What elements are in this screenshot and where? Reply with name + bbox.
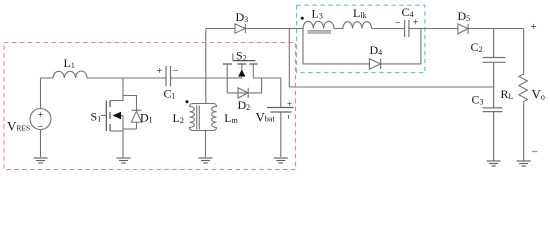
wire V_RES bottom to ground — [40, 130, 42, 158]
diode D3 — [235, 24, 245, 33]
resistor RL — [519, 29, 527, 161]
wire main rail left — [41, 78, 54, 109]
diode D2 (antiparallel of S2) — [227, 88, 261, 98]
diode D5 — [458, 24, 468, 34]
inductor L1 — [53, 71, 87, 78]
ground (S1) — [117, 158, 131, 163]
wire C1 to S2 left node — [171, 77, 229, 79]
red dashed box (input stage) — [4, 43, 296, 170]
svg-text:+: + — [531, 21, 537, 33]
wire D5 to output corner — [468, 28, 524, 30]
S1 body arrow — [113, 112, 122, 120]
capacitor C2 — [483, 29, 506, 108]
ground (RL) — [517, 161, 531, 166]
wire node B vertical (D3 rail down to L2 top) — [205, 29, 207, 104]
svg-text:+: + — [413, 18, 419, 29]
ground (battery) — [274, 158, 288, 163]
wire D3 cathode to L3 — [245, 28, 303, 30]
wire S2 right rail to battery corner — [253, 78, 280, 108]
battery V_bat — [267, 108, 294, 119]
inductor Llk (leakage) — [343, 22, 372, 29]
capacitor C4 — [405, 20, 409, 37]
ground (V_RES) — [34, 158, 48, 163]
svg-text:+: + — [287, 99, 292, 109]
S2 body arrow — [238, 70, 245, 77]
svg-text:+: + — [157, 66, 163, 77]
capacitor C1 — [166, 66, 171, 87]
core lines under L3 — [308, 30, 332, 32]
voltage source V_RES — [30, 109, 51, 130]
wire mid return line to C2/C3 junction — [289, 86, 493, 88]
svg-text:–: – — [531, 146, 538, 157]
wire D3-rail tap down to mid return line — [288, 29, 290, 88]
diode D4 — [369, 59, 380, 69]
cyan loop left vertical + bottom wire — [303, 29, 369, 64]
node dot (L2 winding polarity) — [186, 100, 189, 103]
cyan dashed box (secondary cell) — [297, 5, 425, 73]
svg-text:−: − — [173, 66, 179, 77]
wire battery to ground — [280, 112, 282, 157]
wire L3 to Llk — [334, 28, 343, 30]
node dot (L3 winding polarity) — [301, 17, 304, 20]
diode D1 (antiparallel of S1) — [123, 96, 142, 130]
inductor L3 (secondary winding) — [303, 21, 334, 33]
ground (C2/C3) — [487, 161, 501, 166]
svg-text:+: + — [38, 110, 44, 121]
switch S2 (MOSFET, horizontal) — [223, 61, 257, 64]
ground (L2/Lm) — [199, 158, 213, 163]
wire L1 to C1 — [87, 77, 166, 79]
wire top rail to D3 — [206, 28, 235, 30]
svg-text:−: − — [38, 122, 44, 133]
wire C4 to D5 / loop right vertical — [303, 29, 458, 64]
transformer L2 / Lm — [190, 104, 217, 158]
capacitor C3 — [483, 108, 503, 161]
wire Llk to C4 — [372, 28, 405, 30]
svg-text:−: − — [395, 18, 401, 29]
transistor S1 (MOSFET) — [106, 101, 110, 132]
